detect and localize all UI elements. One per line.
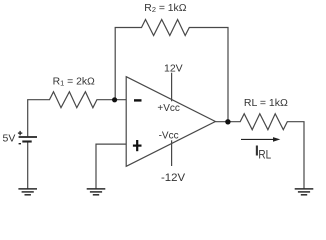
svg-text:5V: 5V <box>3 133 16 145</box>
svg-text:-Vcc: -Vcc <box>159 131 179 142</box>
svg-text:-12V: -12V <box>161 172 185 184</box>
svg-text:RL = 1kΩ: RL = 1kΩ <box>244 97 288 109</box>
svg-text:RL: RL <box>258 148 271 162</box>
svg-text:R2 = 1kΩ: R2 = 1kΩ <box>144 3 186 14</box>
svg-text:+Vcc: +Vcc <box>157 103 180 114</box>
svg-text:12V: 12V <box>164 63 183 75</box>
svg-text:R1 = 2kΩ: R1 = 2kΩ <box>53 77 95 88</box>
